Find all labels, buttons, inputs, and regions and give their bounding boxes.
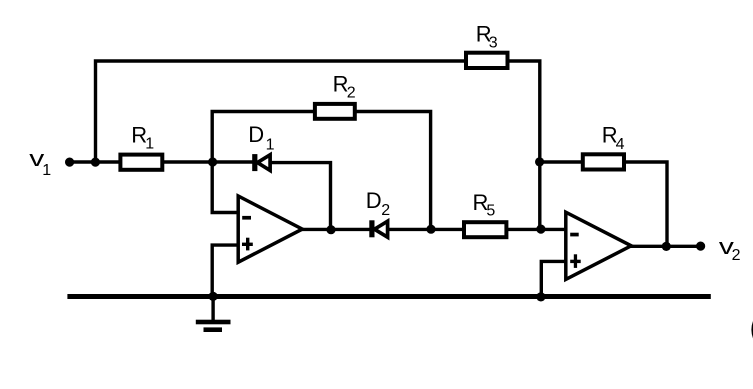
v2 output terminal dot xyxy=(696,242,705,251)
label R3 xyxy=(476,21,498,51)
svg-text:3: 3 xyxy=(489,34,498,51)
resistor R4 xyxy=(583,154,624,169)
svg-text:D: D xyxy=(366,188,382,213)
op-amp U2 minus sign xyxy=(570,233,579,237)
wire: node A up to R2 branch xyxy=(212,112,314,163)
label D1 xyxy=(248,122,274,153)
svg-text:5: 5 xyxy=(486,203,495,220)
node: op2 output junction xyxy=(662,242,671,251)
wire: v1 node to top rail and R3 xyxy=(96,61,468,162)
node: op1 output junction xyxy=(326,225,335,234)
svg-text:1: 1 xyxy=(145,136,154,153)
resistor R2 xyxy=(315,104,355,119)
svg-text:1: 1 xyxy=(266,136,275,153)
wire: node B to R4 xyxy=(540,160,584,163)
svg-text:D: D xyxy=(248,122,264,147)
ground stub xyxy=(211,297,214,322)
label R1 xyxy=(131,122,154,152)
wire: op2 non-inverting input to ground rail xyxy=(541,261,566,296)
node: v1 junction xyxy=(91,158,100,167)
op-amp U1 xyxy=(238,196,302,262)
label R4 xyxy=(602,122,625,153)
resistor R5 xyxy=(464,222,506,237)
svg-text:2: 2 xyxy=(347,85,356,102)
svg-text:1: 1 xyxy=(42,162,51,179)
node B: R3/R4 junction xyxy=(535,157,544,166)
wire: v1 terminal to R1 xyxy=(68,160,121,163)
node A: R1/D1/R2 junction xyxy=(208,157,217,166)
resistor R3 xyxy=(466,53,508,68)
wire: R3 down to op2 inverting branch xyxy=(507,61,540,229)
node: op2 inverting junction xyxy=(536,225,545,234)
wire: R1 to node A xyxy=(162,160,254,163)
label R2 xyxy=(333,71,356,101)
label R5 xyxy=(473,190,496,220)
ground rail wire xyxy=(70,294,708,299)
wire: op2 output to v2 terminal xyxy=(631,245,701,248)
v1 input terminal dot xyxy=(65,158,74,167)
op-amp U2 plus sign xyxy=(570,260,581,263)
wire: op1 non-inverting input to ground rail xyxy=(212,245,240,296)
diode D2 xyxy=(369,220,387,237)
svg-text:2: 2 xyxy=(732,247,741,264)
node: ground junction op2 xyxy=(536,292,545,301)
wire: R4 to output node xyxy=(623,162,667,246)
node: D2/R2/R5 junction xyxy=(426,225,435,234)
wire: op1 output to D2 xyxy=(302,228,372,231)
wire: D2 to R5 xyxy=(388,228,466,231)
wire: D1 to op1 output node xyxy=(269,163,331,230)
svg-text:4: 4 xyxy=(616,136,625,153)
node: ground junction op1 xyxy=(209,292,218,301)
resistor R1 xyxy=(120,155,162,170)
wire: R5 to op2 inverting input xyxy=(505,228,566,231)
op-amp U1 plus sign xyxy=(242,243,253,246)
op-amp U2 xyxy=(566,212,631,279)
ground xyxy=(196,320,231,332)
label D2 xyxy=(366,188,391,219)
diode D1 xyxy=(252,154,270,171)
wire: R2 to D2/R5 node xyxy=(355,112,431,230)
label v1 xyxy=(29,146,51,179)
wire: node A down to op1 inverting input xyxy=(212,162,240,213)
label v2 xyxy=(719,234,741,264)
svg-text:2: 2 xyxy=(381,202,390,219)
op-amp U1 minus sign xyxy=(242,216,251,220)
